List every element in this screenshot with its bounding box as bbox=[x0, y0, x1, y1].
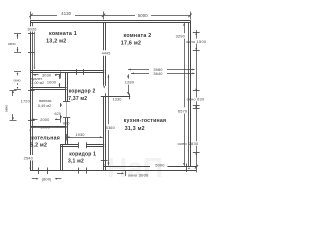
svg-text:3,1 м2: 3,1 м2 bbox=[68, 158, 84, 164]
dim okno 3000 bottom bbox=[117, 173, 123, 175]
wall bottom lower line bbox=[30, 170, 196, 172]
dim okno 1500 bbox=[193, 32, 200, 34]
wall bath bottom / boiler top y=127 bbox=[30, 126, 66, 128]
svg-text:2540: 2540 bbox=[24, 156, 34, 161]
dim 2000 boiler width bbox=[32, 126, 38, 128]
dim 3980 upper bbox=[128, 69, 149, 71]
svg-text:7,37 м2: 7,37 м2 bbox=[68, 96, 87, 102]
svg-text:1720: 1720 bbox=[21, 99, 31, 104]
svg-text:котельная: котельная bbox=[31, 135, 60, 141]
dim 5000 top bbox=[104, 15, 136, 17]
window ticks left wall bath bbox=[28, 90, 35, 92]
dim window bath left bbox=[10, 90, 17, 92]
dim 2540 boiler left bbox=[23, 155, 35, 160]
svg-text:окно: окно bbox=[13, 78, 20, 82]
dim extension ticks top bbox=[30, 12, 32, 20]
dim okno 630 bbox=[193, 90, 200, 92]
dim 3640 lower bbox=[131, 73, 149, 75]
svg-text:3290: 3290 bbox=[176, 33, 186, 38]
wall right exterior bbox=[188, 23, 190, 166]
dim 800 bottom bbox=[38, 168, 40, 175]
svg-text:комната 1: комната 1 bbox=[49, 31, 77, 37]
dim 1930 corridor1 bbox=[67, 137, 103, 139]
svg-text:5360: 5360 bbox=[106, 125, 116, 130]
wall room1 bottom y=72 bbox=[30, 70, 104, 72]
svg-text:окно 2830: окно 2830 bbox=[177, 141, 199, 146]
svg-text:туалет: туалет bbox=[31, 77, 43, 81]
svg-text:31,3 м2: 31,3 м2 bbox=[125, 126, 145, 132]
svg-text:комната 2: комната 2 bbox=[123, 33, 151, 39]
arrow door edge corridor2-kitchen bbox=[103, 86, 105, 88]
svg-text:17,6 м2: 17,6 м2 bbox=[121, 40, 141, 46]
wall left exterior bbox=[30, 21, 32, 171]
svg-text:620: 620 bbox=[54, 112, 61, 116]
svg-text:5,2 м2: 5,2 м2 bbox=[30, 142, 47, 148]
dim 3026 label bbox=[26, 26, 39, 31]
svg-text:5000: 5000 bbox=[138, 13, 148, 18]
wall corridor1 top y=145 bbox=[60, 144, 78, 146]
dim 2000 bath width bbox=[32, 119, 38, 121]
svg-text:3640: 3640 bbox=[153, 71, 163, 76]
svg-text:1330: 1330 bbox=[112, 96, 122, 101]
svg-text:4130: 4130 bbox=[61, 11, 71, 16]
door ticks entrance bottom bbox=[78, 168, 80, 174]
svg-text:2,00 м2: 2,00 м2 bbox=[31, 81, 44, 85]
svg-text:6570: 6570 bbox=[178, 108, 188, 113]
svg-text:1280: 1280 bbox=[125, 79, 135, 84]
dim okno 2830 bbox=[193, 108, 200, 110]
wall corridor1 left x=61 bbox=[60, 144, 62, 170]
dim window toilet left bbox=[14, 71, 21, 73]
svg-text:1930: 1930 bbox=[75, 132, 85, 137]
door ticks bath door bbox=[63, 101, 70, 103]
svg-text:4445: 4445 bbox=[102, 51, 111, 55]
dim column x=184 with 3290 and 6570 bbox=[184, 23, 186, 34]
wall top exterior bbox=[30, 20, 190, 22]
svg-text:3026: 3026 bbox=[27, 27, 36, 32]
dim 1280 passage vertical bbox=[128, 74, 130, 78]
svg-text:2000: 2000 bbox=[41, 124, 51, 129]
svg-text:окно 3000: окно 3000 bbox=[128, 172, 149, 177]
dim 3030 toilet bbox=[33, 74, 39, 76]
svg-text:1000: 1000 bbox=[47, 79, 57, 84]
svg-text:(800): (800) bbox=[42, 176, 52, 181]
svg-text:600: 600 bbox=[63, 121, 70, 125]
svg-text:2000: 2000 bbox=[40, 117, 50, 122]
dim 5360 kitchen vertical bbox=[108, 75, 110, 125]
svg-text:окно: окно bbox=[4, 105, 8, 113]
dim 4130 top bbox=[31, 15, 57, 17]
dim window room1 left bbox=[14, 33, 21, 35]
wall toilet/bath right x=66.5 bbox=[65, 73, 67, 102]
svg-text:окно 1500: окно 1500 bbox=[186, 39, 207, 44]
wall room1|room2 and corridor2|kitchen x=104 bbox=[103, 23, 105, 51]
svg-text:3030: 3030 bbox=[42, 73, 52, 78]
svg-text:окно: окно bbox=[8, 42, 16, 46]
svg-text:коридор 1: коридор 1 bbox=[69, 151, 96, 157]
svg-text:окно 630: окно 630 bbox=[187, 96, 205, 101]
wall toilet bottom y=88.5 bbox=[30, 87, 66, 89]
door tick corridor1-kitchen bbox=[101, 160, 108, 162]
window ticks left wall room1 bbox=[28, 33, 35, 35]
svg-text:кухня-гостиная: кухня-гостиная bbox=[124, 118, 167, 124]
door ticks corridor1 top bbox=[78, 142, 80, 148]
svg-text:коридор 2: коридор 2 bbox=[69, 89, 96, 95]
svg-text:5,49 м2: 5,49 м2 bbox=[38, 104, 51, 108]
dim 620 bath door bbox=[60, 103, 62, 107]
svg-text:13,2 м2: 13,2 м2 bbox=[46, 39, 66, 45]
door ticks room1-corridor2 bbox=[76, 69, 78, 75]
dim column x=196 window dims right bbox=[196, 30, 198, 39]
svg-text:5000: 5000 bbox=[155, 163, 165, 168]
svg-text:ванная: ванная bbox=[39, 99, 51, 103]
dim 1330 passage width bbox=[101, 96, 130, 98]
wall bottom upper line right section bbox=[104, 166, 150, 168]
